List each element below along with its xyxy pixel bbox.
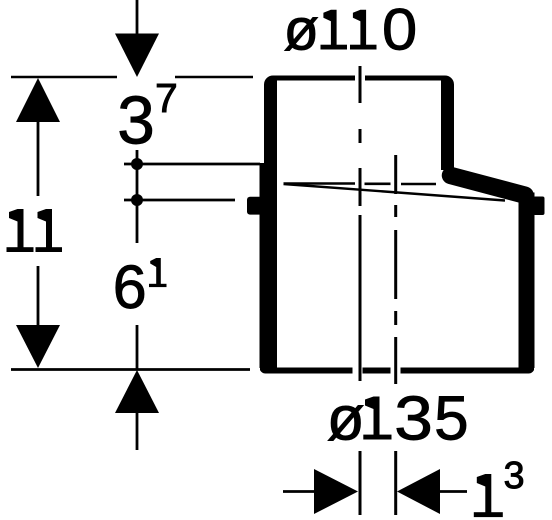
svg-text:5: 5: [434, 385, 468, 454]
bottom edge gap at axis line 1: [353, 367, 363, 376]
dim 11 label: digit 1: [9, 209, 24, 252]
dim 1.3: left-pointing arrowhead: [397, 469, 440, 514]
fitting body: left wall upper: [264, 77, 277, 164]
fitting body: right wall upper: [441, 77, 454, 170]
dim 1.3: right-pointing arrowhead: [314, 469, 358, 514]
centerline 1 (o110 axis): [359, 66, 362, 515]
dim 11: up arrowhead: [16, 78, 60, 122]
dim 11: vertical dimension line: [37, 120, 40, 327]
leader line from upper dot: [124, 163, 260, 166]
fitting body: left lug: [247, 197, 265, 215]
dim 3: down arrowhead: [115, 34, 159, 78]
label o135: digit 1: [365, 397, 380, 440]
top edge gap at centerline: [355, 74, 365, 83]
leader line from lower dot: [124, 199, 235, 202]
bottom extension line: [11, 368, 250, 371]
dim 3: top stem: [136, 0, 139, 36]
fitting body: right wall lower: [519, 193, 535, 369]
fitting body: rounded corner cut bottom-left: [260, 368, 266, 374]
internal taper top line: [284, 182, 437, 185]
dim 1.3: left stem: [283, 490, 315, 493]
svg-text:6: 6: [113, 253, 147, 321]
label o110: digit 1: [323, 10, 336, 50]
dim 6: bottom stem: [136, 411, 139, 450]
dim 3/6: middle stem: [136, 150, 139, 243]
label o110: digit 1: [353, 10, 366, 50]
bottom edge gap at axis line 2: [391, 367, 401, 376]
fitting body: bottom edge: [260, 368, 534, 374]
svg-text:ø: ø: [327, 385, 365, 454]
svg-text:3: 3: [117, 84, 155, 159]
fitting body: rounded corner cut bottom-right: [529, 368, 535, 374]
top extension line: [11, 76, 253, 79]
fitting body: rounded corner cut top-right: [445, 76, 454, 85]
internal taper slope line: [284, 184, 506, 201]
svg-text:ø: ø: [284, 0, 319, 63]
dim 6: lower stem: [136, 325, 139, 369]
dim node dot lower: [131, 194, 143, 206]
fitting body: shoulder: [451, 175, 526, 195]
svg-text:7: 7: [155, 75, 178, 121]
svg-text:3: 3: [394, 385, 433, 454]
fitting body: rounded corner cut top-left: [264, 76, 273, 85]
fitting body: top edge: [266, 76, 452, 81]
dim 1.3: right stem: [439, 490, 467, 493]
dim 11: down arrowhead: [16, 325, 60, 368]
dim 1.3 label: digit 1: [477, 474, 492, 517]
fitting body: left wall lower (socket): [260, 163, 278, 368]
centerline 2 (o135 axis): [394, 155, 397, 515]
svg-text:3: 3: [504, 455, 525, 497]
dim 6: up arrowhead: [115, 370, 159, 413]
dim 11 label: digit 1: [38, 209, 53, 252]
fitting body: right lug: [533, 197, 545, 216]
svg-text:0: 0: [382, 0, 417, 63]
dim node dot upper: [131, 158, 143, 170]
dim 6 label: superscript 1: [150, 258, 161, 287]
